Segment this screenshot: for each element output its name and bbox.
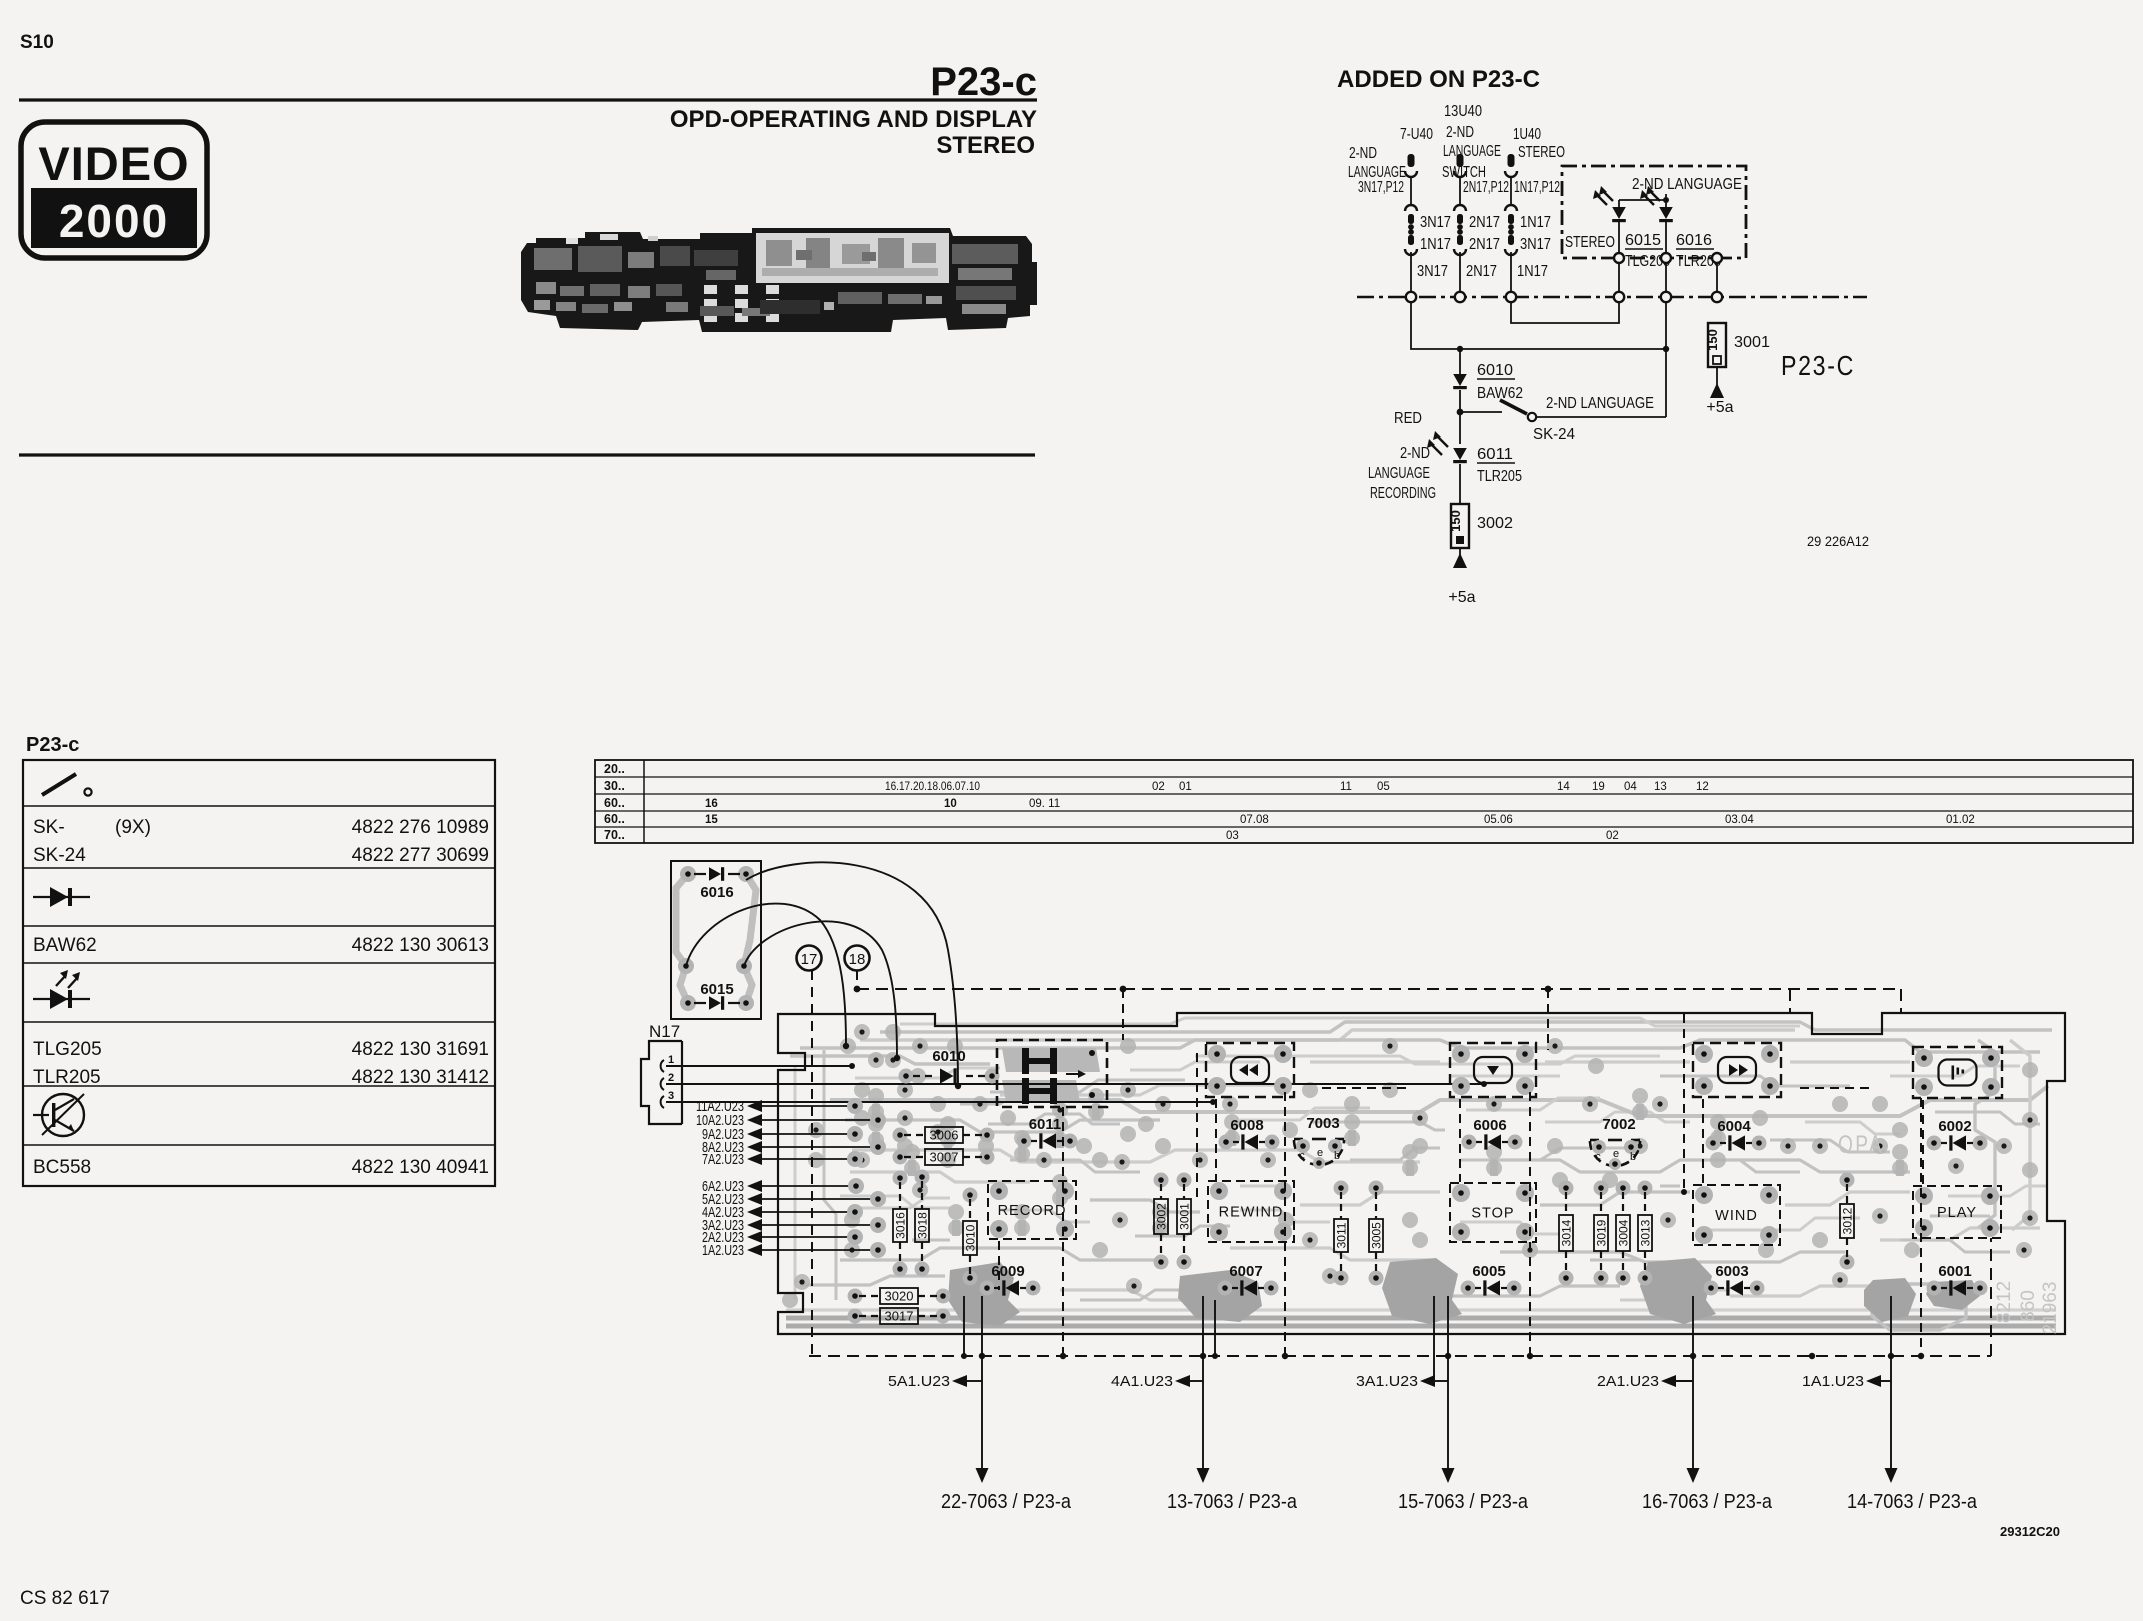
svg-text:3017: 3017 (885, 1309, 914, 1324)
wiring row table (595, 760, 2133, 843)
key symbol play/still (1913, 1047, 2002, 1098)
svg-text:01.02: 01.02 (1946, 814, 1975, 826)
wire N17 pin3 (666, 1101, 1213, 1103)
svg-text:6009: 6009 (991, 1263, 1024, 1280)
svg-text:6008: 6008 (1230, 1117, 1263, 1134)
svg-text:3007: 3007 (930, 1150, 959, 1165)
svg-text:3001: 3001 (1734, 334, 1770, 351)
LED box (dash-dot) (1562, 166, 1746, 258)
svg-text:3012: 3012 (1841, 1207, 1855, 1234)
svg-text:TLG205: TLG205 (33, 1039, 102, 1060)
resistor 3006 (893, 1127, 995, 1143)
svg-text:19: 19 (1592, 781, 1605, 793)
parts table (23, 760, 495, 1186)
diode 6001 (pcb) (1927, 1263, 1988, 1296)
svg-text:STEREO: STEREO (1565, 234, 1615, 251)
svg-text:b: b (1630, 1151, 1636, 1163)
svg-text:OPD-OPERATING AND DISPLAY: OPD-OPERATING AND DISPLAY (670, 106, 1037, 133)
svg-text:7A2.U23: 7A2.U23 (702, 1151, 744, 1168)
key PLAY (1913, 1186, 2001, 1238)
svg-text:3005: 3005 (1370, 1222, 1384, 1249)
svg-text:29312C20: 29312C20 (2000, 1524, 2060, 1539)
svg-text:150: 150 (1448, 510, 1463, 532)
resistor 3014 (1559, 1181, 1574, 1286)
transistor 7003 (1294, 1115, 1344, 1169)
circled 18 (845, 946, 870, 971)
svg-text:16: 16 (705, 798, 718, 810)
svg-text:07.08: 07.08 (1240, 814, 1269, 826)
diode 6005 (pcb) (1461, 1263, 1522, 1296)
svg-text:4822 130 31691: 4822 130 31691 (352, 1039, 489, 1060)
resistor 3020 (848, 1288, 951, 1304)
svg-text:6002: 6002 (1938, 1118, 1971, 1135)
output 3A1.U23 to 15-7063/P23-a (1356, 1296, 1529, 1513)
terminal 8A2.U23 (702, 1139, 886, 1156)
svg-text:01: 01 (1179, 781, 1192, 793)
switch symbol (table) (42, 774, 76, 795)
svg-text:15-7063 / P23-a: 15-7063 / P23-a (1398, 1491, 1529, 1513)
connector line 2 (2N17) (1454, 154, 1500, 292)
switch SK-24 (1460, 349, 1666, 443)
svg-text:6007: 6007 (1229, 1263, 1262, 1280)
resistor 3004 (1616, 1181, 1631, 1286)
svg-text:3019: 3019 (1595, 1219, 1609, 1246)
key symbol stop (1450, 1043, 1536, 1097)
svg-text:8212: 8212 (1994, 1281, 2015, 1323)
svg-text:PLAY: PLAY (1937, 1205, 1977, 1221)
output 1A1.U23 to 14-7063/P23-a (1802, 1296, 1978, 1513)
svg-text:(9X): (9X) (115, 817, 151, 838)
svg-text:3N17: 3N17 (1420, 214, 1451, 231)
svg-text:29 226A12: 29 226A12 (1807, 533, 1869, 549)
svg-text:3014: 3014 (1560, 1219, 1574, 1246)
svg-text:1N17: 1N17 (1420, 236, 1451, 253)
svg-text:6016: 6016 (700, 884, 733, 901)
svg-text:STEREO: STEREO (1518, 144, 1565, 161)
svg-text:5A1.U23: 5A1.U23 (888, 1374, 950, 1390)
svg-text:4822 130 40941: 4822 130 40941 (352, 1157, 489, 1178)
wire below bus: line3 to LED1 column (1511, 302, 1619, 323)
diode symbol (table) (33, 896, 90, 898)
svg-text:4822 276 10989: 4822 276 10989 (352, 817, 489, 838)
svg-text:3002: 3002 (1477, 515, 1513, 532)
svg-text:09. 11: 09. 11 (1029, 798, 1060, 810)
svg-text:4822 130 30613: 4822 130 30613 (352, 935, 489, 956)
svg-text:6015: 6015 (1625, 232, 1661, 249)
resistor 3011 (1334, 1181, 1349, 1286)
svg-text:02: 02 (1152, 781, 1165, 793)
svg-text:c: c (1299, 1150, 1305, 1162)
svg-text:RECORD: RECORD (998, 1203, 1067, 1219)
svg-text:VIDEO: VIDEO (38, 137, 189, 190)
svg-text:P23-C: P23-C (1781, 350, 1855, 381)
svg-text:3N17: 3N17 (1520, 236, 1551, 253)
6015/6016 breakout box (671, 861, 761, 1019)
svg-text:S10: S10 (20, 32, 54, 53)
connector N17 (641, 1022, 682, 1124)
svg-text:12: 12 (1696, 781, 1709, 793)
bus node circles (1406, 292, 1416, 302)
svg-text:N17: N17 (649, 1022, 680, 1041)
diode 6010 (pcb) (899, 1048, 1000, 1084)
svg-text:4A1.U23: 4A1.U23 (1111, 1374, 1173, 1390)
svg-text:TLR205: TLR205 (1477, 468, 1522, 485)
diode 6011 (pcb) (1017, 1116, 1078, 1149)
circled 17 (797, 946, 822, 971)
svg-text:20..: 20.. (604, 762, 625, 776)
svg-text:6010: 6010 (1477, 362, 1513, 379)
key symbol wind (1693, 1043, 1781, 1097)
svg-text:2-ND: 2-ND (1446, 124, 1474, 141)
svg-text:14: 14 (1557, 781, 1570, 793)
top horizontal rule (19, 98, 1037, 101)
svg-text:21963: 21963 (2040, 1282, 2061, 1335)
svg-text:3006: 3006 (930, 1128, 959, 1143)
svg-text:14-7063 / P23-a: 14-7063 / P23-a (1847, 1491, 1978, 1513)
terminal 9A2.U23 (702, 1126, 863, 1143)
svg-text:2N17: 2N17 (1469, 214, 1500, 231)
svg-text:7003: 7003 (1306, 1115, 1339, 1132)
svg-text:1A2.U23: 1A2.U23 (702, 1242, 744, 1259)
dashed feed line 18 (856, 970, 858, 989)
svg-text:3013: 3013 (1639, 1219, 1653, 1246)
diode 6006 (pcb) (1462, 1117, 1523, 1150)
wire LED feeds (1619, 199, 1666, 201)
VIDEO 2000 logo (21, 122, 207, 258)
key symbol rewind (1206, 1043, 1294, 1097)
svg-text:02: 02 (1606, 830, 1619, 842)
terminal 7A2.U23 (702, 1151, 863, 1168)
output 4A1.U23 to 13-7063/P23-a (1111, 1296, 1298, 1513)
svg-text:150: 150 (1705, 329, 1720, 351)
svg-text:1U40: 1U40 (1513, 126, 1541, 143)
+5a supply arrow (3002) (1459, 548, 1461, 560)
LED 6011 TLR205 (RED) (1368, 410, 1522, 502)
svg-text:2: 2 (668, 1072, 674, 1084)
key REWIND (1208, 1181, 1294, 1242)
svg-text:3004: 3004 (1617, 1219, 1631, 1246)
svg-text:+5a: +5a (1448, 589, 1475, 606)
companion stubs to boundary (963, 1296, 965, 1356)
svg-text:2N17: 2N17 (1466, 263, 1497, 280)
wire curve to pad C (746, 862, 958, 1086)
photo of OPD board (521, 228, 1037, 332)
resistor 3019 (1594, 1181, 1609, 1286)
svg-text:3001: 3001 (1178, 1203, 1192, 1230)
resistor 3017 (848, 1308, 951, 1324)
svg-text:70..: 70.. (604, 828, 625, 842)
dash-dot N17 bus line (1357, 296, 1867, 299)
wire curve to pad A (686, 904, 846, 1046)
dashed junction dots on boundary (979, 1353, 985, 1359)
output 5A1.U23 to 22-7063/P23-a (888, 1296, 1072, 1513)
svg-text:6010: 6010 (932, 1048, 965, 1065)
resistor 3007 (893, 1149, 995, 1165)
svg-text:b: b (1334, 1150, 1340, 1162)
resistor 3012 (1840, 1173, 1855, 1270)
svg-text:2N17,P12: 2N17,P12 (1463, 179, 1509, 196)
+5a supply arrow (3001) (1716, 367, 1718, 385)
svg-text:LANGUAGE: LANGUAGE (1368, 465, 1430, 482)
pcb copper blobs (782, 1024, 2038, 1326)
svg-text:22-7063 / P23-a: 22-7063 / P23-a (941, 1491, 1072, 1513)
terminal 4A2.U23 (702, 1204, 863, 1221)
diode 6016 (in breakout box) (694, 867, 740, 901)
svg-text:3020: 3020 (885, 1289, 914, 1304)
svg-text:11: 11 (1340, 781, 1352, 793)
resistor 3001 (pcb) (1177, 1173, 1192, 1270)
svg-text:STEREO: STEREO (936, 132, 1035, 159)
svg-text:6005: 6005 (1472, 1263, 1505, 1280)
resistor 3016 (893, 1171, 908, 1277)
connector line 3 (1N17) (1505, 154, 1551, 292)
svg-text:04: 04 (1624, 781, 1637, 793)
wire below bus: junction row y=349 (1411, 302, 1666, 349)
svg-text:3002: 3002 (1155, 1203, 1169, 1230)
resistor 3013 (1638, 1181, 1653, 1286)
svg-text:2000: 2000 (59, 195, 169, 247)
terminal 5A2.U23 (702, 1191, 886, 1208)
svg-text:18: 18 (849, 951, 866, 968)
svg-text:3016: 3016 (894, 1212, 908, 1239)
output 2A1.U23 to 16-7063/P23-a (1597, 1296, 1773, 1513)
dashed feed line 17 (811, 970, 813, 1356)
diode 6010 BAW62 (1453, 349, 1523, 402)
svg-text:1: 1 (668, 1054, 674, 1066)
svg-text:3A1.U23: 3A1.U23 (1356, 1374, 1418, 1390)
terminal 10A2.U23 (696, 1112, 886, 1129)
svg-text:6003: 6003 (1715, 1263, 1748, 1280)
svg-text:3018: 3018 (916, 1212, 930, 1239)
box pin circles (1614, 253, 1624, 263)
svg-text:1N17,P12: 1N17,P12 (1514, 179, 1560, 196)
svg-text:2-ND: 2-ND (1349, 145, 1377, 162)
terminal 11A2.U23 (696, 1098, 863, 1115)
diode 6008 (pcb) (1219, 1117, 1280, 1150)
svg-text:RED: RED (1394, 410, 1422, 427)
middle horizontal rule (19, 453, 1035, 456)
svg-text:SK-24: SK-24 (33, 845, 86, 866)
resistor 3001 (150) (1705, 323, 1770, 367)
svg-text:3010: 3010 (964, 1224, 978, 1251)
svg-text:3N17,P12: 3N17,P12 (1358, 179, 1404, 196)
key STOP (1450, 1183, 1536, 1242)
svg-text:16.17.20.18.06.07.10: 16.17.20.18.06.07.10 (885, 781, 980, 793)
svg-text:13-7063 / P23-a: 13-7063 / P23-a (1167, 1491, 1298, 1513)
svg-text:4822 130 31412: 4822 130 31412 (352, 1067, 489, 1088)
svg-text:CS 82 617: CS 82 617 (20, 1588, 110, 1609)
connector line 1 (3N17) (1405, 154, 1451, 292)
svg-text:LANGUAGE: LANGUAGE (1443, 143, 1501, 160)
svg-text:6011: 6011 (1029, 1116, 1062, 1133)
svg-text:ADDED ON P23-C: ADDED ON P23-C (1337, 66, 1540, 93)
svg-text:SK-24: SK-24 (1533, 426, 1575, 443)
svg-text:WIND: WIND (1715, 1208, 1758, 1224)
svg-text:6011: 6011 (1477, 446, 1513, 463)
svg-text:17: 17 (801, 951, 818, 968)
resistor 3010 (963, 1188, 978, 1286)
svg-text:03.04: 03.04 (1725, 814, 1754, 826)
transistor symbol (table) (33, 1094, 84, 1136)
svg-text:c: c (1595, 1151, 1601, 1163)
svg-text:+5a: +5a (1706, 399, 1733, 416)
2nd-language key footprint (H pattern) (997, 1040, 1107, 1107)
svg-text:e: e (1317, 1147, 1323, 1159)
svg-text:2N17: 2N17 (1469, 236, 1500, 253)
svg-text:60..: 60.. (604, 812, 625, 826)
outer dashed boundary (857, 988, 1901, 990)
pcb copper traces (786, 1018, 2056, 1330)
transistor 7002 (1590, 1116, 1640, 1170)
svg-text:7-U40: 7-U40 (1400, 126, 1433, 143)
key RECORD (988, 1181, 1076, 1239)
svg-text:OPA: OPA (1838, 1131, 1884, 1159)
svg-text:05.06: 05.06 (1484, 814, 1513, 826)
svg-text:4822 277 30699: 4822 277 30699 (352, 845, 489, 866)
terminal 2A2.U23 (702, 1229, 863, 1246)
diode 6015 (in breakout box) (694, 981, 740, 1010)
resistor 3002 (150) (1448, 464, 1513, 548)
diode 6009 (pcb) (980, 1263, 1041, 1296)
resistor 3002 (pcb) (1154, 1173, 1169, 1270)
svg-text:2A1.U23: 2A1.U23 (1597, 1374, 1659, 1390)
wire N17 pin2 (666, 1083, 1484, 1085)
svg-text:6001: 6001 (1938, 1263, 1971, 1280)
diode 6002 (pcb) (1927, 1118, 1988, 1151)
svg-text:860: 860 (2018, 1290, 2039, 1322)
resistor 3005 (1369, 1181, 1384, 1286)
svg-text:REWIND: REWIND (1219, 1205, 1284, 1221)
svg-text:TLR205: TLR205 (33, 1067, 101, 1088)
svg-text:15: 15 (705, 814, 718, 826)
board outline (778, 1013, 2065, 1334)
svg-text:BAW62: BAW62 (33, 935, 97, 956)
svg-text:3011: 3011 (1335, 1222, 1349, 1248)
svg-text:STOP: STOP (1471, 1206, 1514, 1222)
svg-text:6004: 6004 (1717, 1118, 1751, 1135)
svg-text:16-7063 / P23-a: 16-7063 / P23-a (1642, 1491, 1773, 1513)
svg-text:30..: 30.. (604, 779, 625, 793)
dashed internal connections (1215, 1099, 1217, 1180)
diode 6003 (pcb) (1704, 1263, 1765, 1296)
terminal 6A2.U23 (702, 1178, 864, 1195)
diode 6004 (pcb) (1706, 1118, 1767, 1151)
svg-text:BC558: BC558 (33, 1157, 91, 1178)
key WIND (1693, 1185, 1780, 1245)
svg-text:6016: 6016 (1676, 232, 1712, 249)
svg-text:13U40: 13U40 (1444, 103, 1482, 120)
node: 6010 cathode / SK-24 (1459, 390, 1461, 444)
svg-text:SK-: SK- (33, 817, 65, 838)
svg-text:3N17: 3N17 (1417, 263, 1448, 280)
svg-text:03: 03 (1226, 830, 1239, 842)
svg-text:2-ND: 2-ND (1400, 445, 1430, 462)
svg-text:6006: 6006 (1473, 1117, 1506, 1134)
svg-text:1N17: 1N17 (1520, 214, 1551, 231)
wire N17 pin1 (666, 1065, 852, 1067)
svg-text:RECORDING: RECORDING (1370, 485, 1436, 502)
svg-text:13: 13 (1654, 781, 1667, 793)
svg-text:6015: 6015 (700, 981, 733, 998)
svg-text:2-ND LANGUAGE: 2-ND LANGUAGE (1546, 395, 1654, 412)
svg-text:P23-c: P23-c (26, 734, 79, 756)
wire box to bus (1618, 263, 1620, 292)
svg-text:10: 10 (944, 798, 957, 810)
diode 6007 (pcb) (1218, 1263, 1279, 1296)
terminal 1A2.U23 (702, 1242, 886, 1259)
svg-text:1N17: 1N17 (1517, 263, 1548, 280)
svg-text:P23-c: P23-c (930, 60, 1037, 104)
svg-text:60..: 60.. (604, 796, 625, 810)
LED 6015 (1593, 186, 1670, 270)
wire curve to pad B (744, 921, 897, 1058)
resistor 3018 (915, 1170, 930, 1277)
svg-text:1A1.U23: 1A1.U23 (1802, 1374, 1864, 1390)
LED 6016 (1640, 186, 1721, 270)
LED symbol (table) (33, 970, 90, 1009)
svg-text:BAW62: BAW62 (1477, 385, 1523, 402)
svg-text:7002: 7002 (1602, 1116, 1635, 1133)
svg-text:e: e (1613, 1148, 1619, 1160)
svg-text:3: 3 (668, 1090, 674, 1102)
svg-text:05: 05 (1377, 781, 1390, 793)
terminal 3A2.U23 (702, 1217, 886, 1234)
